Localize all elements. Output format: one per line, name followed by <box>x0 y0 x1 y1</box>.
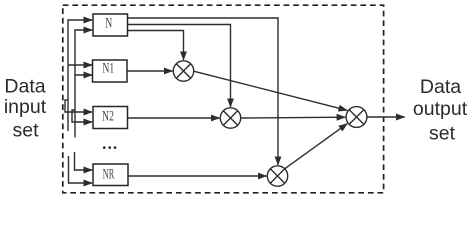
svg-text:output: output <box>413 98 468 120</box>
wire N out2 to M2 top <box>128 25 231 107</box>
wire N out3 to M1 top <box>128 31 184 60</box>
wire rail A jog to N2 top <box>65 100 92 112</box>
wire NR out to M3 <box>128 175 266 177</box>
label Data input set <box>4 76 47 142</box>
wire input rail A to N top <box>68 20 92 131</box>
svg-text:Data: Data <box>4 76 45 98</box>
block NR <box>93 164 128 186</box>
svg-text:N: N <box>105 16 112 32</box>
wire N1 out to M1 <box>127 70 172 72</box>
block N <box>93 14 128 36</box>
multiplier M1 <box>173 61 193 81</box>
svg-text:NR: NR <box>103 166 115 182</box>
multiplier M3 <box>267 166 287 186</box>
block N2 <box>93 107 128 129</box>
wire to NR bottom <box>69 156 93 183</box>
wire M1 out to M4 <box>194 71 347 110</box>
label Data output set <box>413 76 468 145</box>
multiplier M4 <box>346 107 367 128</box>
multiplier M2 <box>220 108 240 128</box>
wire N2 out to M2 <box>128 117 220 119</box>
wire rail B tap to N1 bottom <box>75 74 92 76</box>
svg-text:set: set <box>12 119 39 141</box>
dashed system boundary <box>63 5 384 193</box>
svg-text:N1: N1 <box>102 61 114 77</box>
block N1 <box>93 60 128 82</box>
wire input rail B to N bottom <box>75 30 92 138</box>
svg-text:input: input <box>4 96 47 118</box>
svg-text:Data: Data <box>420 76 461 98</box>
wire rail A tap to N1 top <box>68 64 92 66</box>
wire rail B jog to N2 bottom <box>72 110 92 122</box>
wire M4 output <box>367 116 405 118</box>
wire N out1 to M3 top <box>128 18 279 165</box>
wire M2 out to M4 <box>241 116 346 119</box>
ellipsis <box>103 146 116 149</box>
svg-text:set: set <box>429 123 456 145</box>
svg-text:N2: N2 <box>102 108 114 124</box>
wire M3 out to M4 <box>285 124 347 169</box>
wire to NR top <box>75 152 93 170</box>
